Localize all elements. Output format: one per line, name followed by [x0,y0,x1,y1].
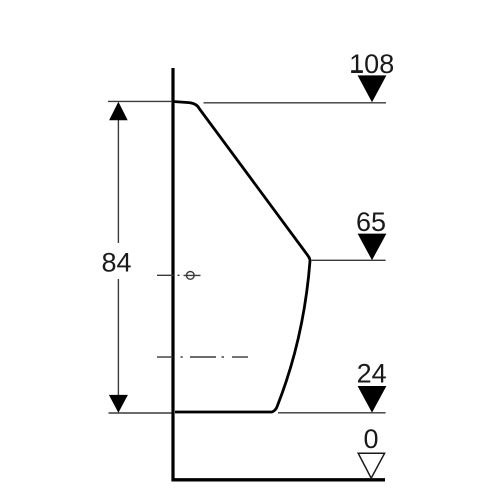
dimension 84 vertical line lower segment [117,279,119,396]
outlet centerline tick through wall [157,274,174,276]
floor line [172,478,386,481]
level marker open triangle 0 [358,453,384,478]
svg-text:0: 0 [363,424,378,454]
level marker triangle 108 [358,75,387,102]
lower centerline dash through wall [157,356,173,358]
wall line [171,68,174,482]
dimension line 108 right segment [204,102,387,104]
lower centerline dot 2 [222,356,225,358]
dimension line 24 left segment [109,412,172,414]
outlet circle mark [186,272,194,280]
lower centerline end dash [232,356,248,358]
dimension line 108 left segment [108,100,172,102]
dimension line 65 [312,259,386,261]
svg-text:65: 65 [356,207,386,237]
outlet centerline through circle [184,274,201,276]
level marker triangle 65 [358,234,387,261]
svg-text:84: 84 [101,248,131,278]
label 108 foot serif of digit 1 [351,70,363,72]
outlet centerline dot [178,274,180,276]
dimension 84 down arrowhead [109,395,128,413]
svg-text:108: 108 [349,49,394,79]
lower centerline long dash [190,356,216,358]
dimension 84 vertical line upper segment [117,119,119,243]
urinal profile outline [173,102,310,413]
svg-text:24: 24 [357,359,387,389]
level marker triangle 24 [358,386,387,413]
dimension line 24 right segment [278,412,386,414]
lower centerline dot 1 [181,356,183,358]
dimension 84 up arrowhead [109,102,128,121]
